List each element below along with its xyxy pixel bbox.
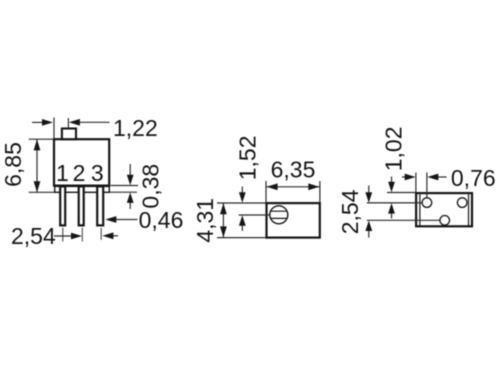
svg-text:0,38: 0,38 [138, 164, 164, 209]
svg-text:6,85: 6,85 [0, 142, 26, 187]
svg-text:2,54: 2,54 [11, 223, 56, 249]
svg-text:1: 1 [56, 160, 69, 186]
svg-text:4,31: 4,31 [192, 198, 218, 243]
svg-text:1,22: 1,22 [113, 115, 158, 141]
svg-text:2,54: 2,54 [337, 189, 363, 234]
svg-text:0,76: 0,76 [451, 165, 496, 191]
svg-text:1,52: 1,52 [234, 136, 260, 181]
svg-text:6,35: 6,35 [271, 156, 316, 182]
svg-text:1,02: 1,02 [380, 127, 406, 172]
svg-text:2: 2 [73, 160, 86, 186]
svg-text:3: 3 [91, 160, 104, 186]
svg-text:0,46: 0,46 [139, 207, 184, 233]
